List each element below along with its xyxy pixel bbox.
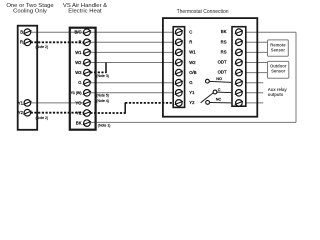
svg-text:(Note 5): (Note 5) [96, 93, 109, 97]
svg-text:Y2: Y2 [76, 110, 82, 115]
svg-text:NO: NO [216, 77, 222, 81]
svg-text:Y1 (IN): Y1 (IN) [71, 91, 82, 95]
svg-text:W1: W1 [189, 50, 196, 55]
svg-text:YO: YO [75, 100, 82, 105]
svg-text:Y2: Y2 [189, 100, 195, 105]
svg-text:(Note 1): (Note 1) [98, 124, 111, 128]
svg-text:C: C [218, 88, 221, 92]
svg-text:(Note 2): (Note 2) [36, 116, 49, 120]
svg-text:Sensor: Sensor [271, 68, 286, 73]
svg-text:Thermostat Connection: Thermostat Connection [177, 9, 229, 15]
svg-text:Y2: Y2 [18, 110, 24, 115]
svg-text:Cooling Only: Cooling Only [13, 9, 47, 15]
svg-text:(Note 3): (Note 3) [96, 74, 109, 78]
svg-text:ODT: ODT [218, 60, 227, 65]
svg-text:W2: W2 [189, 60, 196, 65]
svg-text:(Note 4): (Note 4) [96, 99, 109, 103]
svg-text:ODT: ODT [218, 70, 227, 75]
svg-text:R: R [189, 40, 192, 45]
svg-text:C: C [189, 30, 192, 35]
svg-text:R: R [78, 40, 81, 45]
svg-text:Y1: Y1 [189, 90, 195, 95]
svg-text:NC: NC [216, 97, 222, 101]
svg-text:Sensor: Sensor [271, 47, 286, 52]
svg-text:BK: BK [221, 29, 227, 34]
svg-text:BK: BK [76, 120, 82, 125]
svg-text:Electric Heat: Electric Heat [68, 9, 102, 15]
svg-text:R: R [20, 40, 23, 45]
svg-text:W2: W2 [75, 60, 82, 65]
svg-text:B: B [20, 30, 23, 35]
svg-text:B/C: B/C [75, 30, 82, 35]
svg-text:W3: W3 [75, 70, 82, 75]
svg-text:RS: RS [221, 39, 227, 44]
svg-text:W1: W1 [75, 50, 82, 55]
svg-text:Y1: Y1 [18, 100, 24, 105]
svg-text:(Note 2): (Note 2) [36, 45, 49, 49]
svg-text:outputs: outputs [268, 92, 284, 97]
svg-text:G: G [189, 80, 192, 85]
svg-text:O/B: O/B [189, 70, 196, 75]
svg-text:G: G [78, 80, 81, 85]
svg-text:RS: RS [221, 49, 227, 54]
